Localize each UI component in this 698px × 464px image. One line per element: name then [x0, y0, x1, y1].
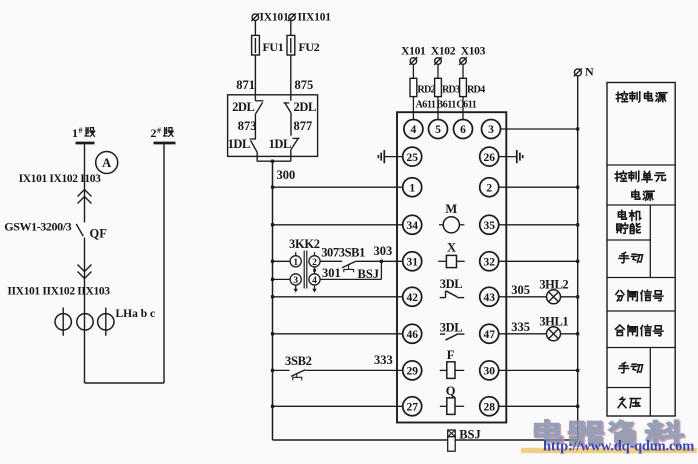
svg-text:X101: X101 — [401, 46, 426, 58]
svg-text:C611: C611 — [456, 100, 476, 111]
svg-text:2DL: 2DL — [232, 100, 254, 114]
svg-text:25: 25 — [406, 152, 418, 164]
svg-text:B611: B611 — [436, 100, 456, 111]
svg-text:2DL: 2DL — [294, 100, 316, 114]
svg-text:#: # — [79, 126, 83, 135]
svg-text:28: 28 — [483, 402, 495, 414]
svg-text:6: 6 — [460, 124, 466, 136]
svg-text:335: 335 — [511, 320, 530, 334]
svg-text:X: X — [447, 241, 456, 255]
svg-text:1DL: 1DL — [269, 137, 291, 151]
svg-text:1DL: 1DL — [228, 137, 250, 151]
svg-text:877: 877 — [294, 119, 313, 133]
svg-text:873: 873 — [238, 119, 257, 133]
svg-text:3DL: 3DL — [440, 321, 462, 335]
svg-text:300: 300 — [277, 168, 296, 182]
svg-text:X102: X102 — [431, 46, 456, 58]
svg-text:333: 333 — [374, 353, 393, 367]
svg-text:3: 3 — [293, 276, 298, 286]
svg-text:32: 32 — [483, 257, 495, 269]
svg-text:3KK2: 3KK2 — [289, 237, 320, 251]
svg-text:875: 875 — [295, 78, 314, 92]
svg-text:N: N — [585, 65, 594, 79]
svg-text:43: 43 — [483, 292, 495, 304]
svg-text:871: 871 — [236, 78, 255, 92]
svg-text:M: M — [445, 202, 457, 216]
svg-text:42: 42 — [406, 292, 418, 304]
svg-text:FU2: FU2 — [299, 40, 320, 54]
svg-text:A611: A611 — [415, 100, 435, 111]
svg-text:3DL: 3DL — [440, 277, 462, 291]
svg-text:IIX101: IIX101 — [298, 12, 332, 24]
svg-text:3073SB1: 3073SB1 — [321, 246, 365, 260]
svg-text:RD4: RD4 — [467, 85, 485, 96]
svg-text:1: 1 — [409, 182, 415, 194]
svg-text:3HL2: 3HL2 — [539, 278, 568, 292]
svg-text:QF: QF — [90, 227, 108, 241]
svg-text:RD3: RD3 — [442, 85, 460, 96]
svg-text:GSW1-3200/3: GSW1-3200/3 — [4, 220, 71, 234]
svg-text:2: 2 — [486, 182, 492, 194]
svg-text:F: F — [447, 348, 455, 362]
svg-text:LHa b c: LHa b c — [116, 308, 156, 320]
svg-text:46: 46 — [406, 329, 418, 341]
svg-text:RD2: RD2 — [417, 85, 435, 96]
svg-text:30: 30 — [483, 366, 495, 378]
svg-text:1: 1 — [72, 126, 78, 140]
svg-text:26: 26 — [483, 152, 495, 164]
svg-text:3SB2: 3SB2 — [285, 354, 312, 368]
svg-text:4: 4 — [312, 276, 317, 286]
svg-text:301: 301 — [322, 266, 341, 280]
svg-text:2: 2 — [151, 126, 157, 140]
svg-text:3HL1: 3HL1 — [539, 315, 568, 329]
svg-text:X103: X103 — [461, 46, 486, 58]
svg-text:27: 27 — [406, 402, 418, 414]
svg-text:2: 2 — [312, 258, 317, 268]
svg-text:IX101: IX101 — [260, 12, 289, 24]
svg-text:303: 303 — [374, 244, 393, 258]
svg-text:47: 47 — [483, 329, 495, 341]
svg-text:35: 35 — [483, 220, 495, 232]
svg-text:3: 3 — [488, 124, 494, 136]
svg-text:4: 4 — [411, 124, 417, 136]
svg-text:34: 34 — [406, 220, 418, 232]
svg-text:1: 1 — [293, 258, 298, 268]
svg-text:29: 29 — [406, 366, 418, 378]
svg-text:http://www.dq-qdun.com: http://www.dq-qdun.com — [543, 439, 694, 455]
svg-text:31: 31 — [406, 257, 418, 269]
svg-text:IX101 IX102 I103: IX101 IX102 I103 — [19, 173, 102, 185]
svg-text:#: # — [157, 126, 161, 135]
svg-text:Q: Q — [446, 384, 456, 398]
svg-text:A: A — [102, 156, 111, 170]
svg-text:5: 5 — [435, 124, 441, 136]
svg-text:BSJ: BSJ — [459, 428, 481, 442]
svg-text:FU1: FU1 — [263, 40, 284, 54]
svg-text:IIX101 IIX102 IIX103: IIX101 IIX102 IIX103 — [7, 286, 110, 298]
svg-text:305: 305 — [511, 283, 530, 297]
